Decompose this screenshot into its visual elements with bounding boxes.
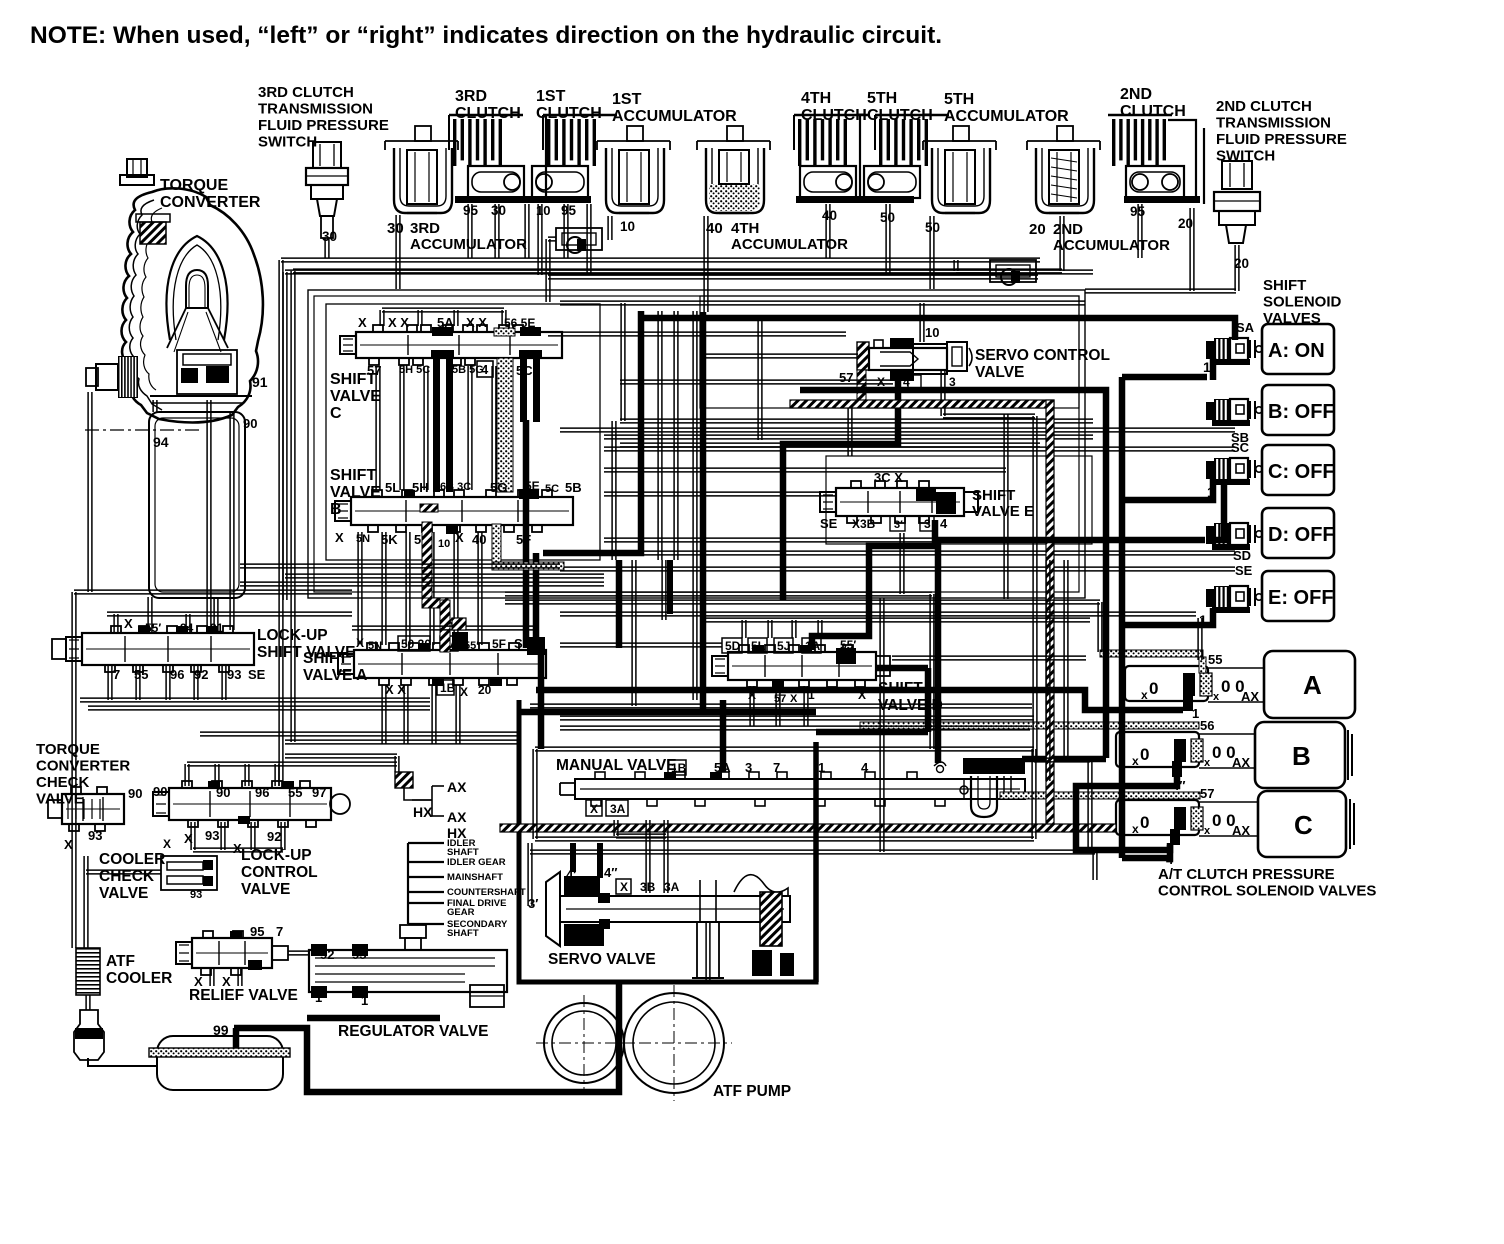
svg-text:X: X — [620, 880, 628, 894]
svg-text:TRANSMISSION: TRANSMISSION — [1216, 115, 1331, 132]
svg-text:7: 7 — [773, 760, 780, 775]
wire 50 5th clutch drop — [886, 204, 890, 275]
svg-text:ACCUMULATOR: ACCUMULATOR — [1053, 237, 1170, 254]
wire 30 3rd clutch drop — [495, 204, 499, 258]
svg-text:CLUTCH: CLUTCH — [1120, 103, 1186, 120]
svg-text:CLUTCH: CLUTCH — [455, 105, 521, 122]
wire valve D top stubs — [742, 620, 746, 638]
ATF pump — [544, 1003, 624, 1083]
svg-text:VALVE: VALVE — [241, 881, 290, 898]
manual valve right detent — [963, 758, 1025, 774]
svg-text:X: X — [335, 530, 344, 545]
wire B unit top 56 — [1198, 618, 1202, 660]
shift valve B — [351, 497, 573, 525]
svg-text:20: 20 — [1029, 221, 1046, 238]
svg-text:95: 95 — [250, 924, 264, 939]
svg-text:4″: 4″ — [604, 865, 617, 880]
wire rail y645 — [560, 643, 722, 647]
wire lockup shift valve bottom stubs — [108, 666, 112, 700]
enclosure box around shift valves B and C — [326, 304, 600, 560]
svg-text:55: 55 — [1208, 652, 1222, 667]
shift solenoid SC — [1206, 461, 1214, 479]
svg-text:B: B — [330, 501, 342, 518]
wire E box doubles — [1004, 414, 1008, 599]
svg-text:20: 20 — [478, 683, 492, 697]
wire valve A bottom stubs — [382, 685, 386, 744]
wire switch 30 drop — [325, 238, 329, 258]
svg-text:5C: 5C — [516, 363, 533, 378]
svg-text:57: 57 — [1200, 786, 1214, 801]
solenoid valve C box — [1258, 791, 1346, 857]
wire long vertical x882 — [880, 598, 884, 852]
wire double to SE — [560, 567, 1235, 571]
svg-text:ATF PUMP: ATF PUMP — [713, 1083, 791, 1100]
base plate 4th/5th clutch — [796, 196, 914, 203]
svg-text:SHIFT: SHIFT — [1263, 277, 1306, 294]
3rd clutch drawing — [453, 119, 456, 166]
ATF strainer — [74, 1010, 104, 1060]
wire thick mid bus join — [1022, 756, 1106, 763]
wire thick servo control to valves — [783, 381, 898, 600]
svg-text:5L: 5L — [751, 639, 765, 653]
svg-text:4TH: 4TH — [731, 220, 759, 237]
svg-text:X X: X X — [385, 682, 406, 697]
wire rail y658 — [892, 656, 1086, 660]
svg-text:4: 4 — [861, 760, 869, 775]
svg-text:4: 4 — [481, 362, 489, 377]
svg-text:10: 10 — [925, 325, 939, 340]
wire vertical x614 — [612, 421, 616, 560]
wire thick B C unit bottoms — [1076, 777, 1177, 850]
svg-text:3A: 3A — [610, 802, 626, 816]
svg-text:x: x — [1141, 688, 1148, 702]
svg-text:10: 10 — [620, 219, 635, 234]
lock-up control valve — [169, 788, 331, 820]
wire 2nd accumulator drop — [1060, 216, 1064, 271]
svg-text:57: 57 — [839, 370, 853, 385]
wire thick SA to manual valve — [538, 648, 545, 749]
wire verticals below valve D area — [632, 560, 636, 706]
svg-text:E: OFF: E: OFF — [1268, 587, 1334, 609]
pressure switch 20 (2nd clutch) — [1222, 161, 1252, 189]
wire manual frame right link — [1034, 758, 1090, 762]
relief valve — [192, 938, 272, 968]
hatched box 5X — [452, 618, 466, 630]
svg-text:5TH: 5TH — [867, 90, 897, 107]
svg-text:96: 96 — [255, 785, 269, 800]
5th clutch drawing — [879, 119, 882, 166]
wire rail y356 — [703, 354, 858, 358]
svg-text:x: x — [1132, 822, 1139, 836]
enclosure box R1 — [308, 290, 1085, 598]
1st accumulator drawing — [597, 141, 670, 150]
wire thick right bus — [1119, 377, 1126, 858]
svg-text:50: 50 — [880, 210, 895, 225]
svg-text:ATF: ATF — [106, 953, 135, 970]
svg-text:CONVERTER: CONVERTER — [36, 758, 130, 775]
wire cooler check link — [84, 856, 88, 948]
wire relief drop — [210, 968, 214, 986]
svg-text:5B: 5B — [565, 480, 582, 495]
svg-text:X: X — [358, 315, 367, 330]
svg-text:7: 7 — [276, 924, 283, 939]
wire AX feed — [395, 756, 399, 772]
svg-text:X: X — [460, 685, 468, 699]
wire thick manual to D solenoid — [938, 540, 1205, 763]
A/T pressure control unit A — [1125, 666, 1208, 701]
wire rail y382 — [620, 380, 893, 384]
svg-text:3B: 3B — [640, 880, 656, 894]
wire 20 2nd clutch drop — [1190, 208, 1194, 291]
svg-text:X: X — [163, 837, 171, 851]
svg-text:1B: 1B — [440, 681, 456, 695]
svg-text:MANUAL VALVE: MANUAL VALVE — [556, 757, 677, 774]
wire thick 4th acc column lower — [700, 312, 707, 712]
AX HX lubrication tree — [395, 772, 413, 788]
wire top rail 4 — [560, 301, 1085, 305]
wire rail y628 — [352, 626, 536, 630]
wire 1st accumulator check link — [608, 216, 612, 240]
wire lower-left rails — [74, 590, 352, 594]
svg-text:X: X — [590, 802, 598, 816]
svg-text:SE: SE — [1235, 563, 1253, 578]
5th accumulator drawing — [923, 141, 996, 150]
wire 40 4th clutch drop — [826, 204, 830, 258]
ATF cooler — [76, 948, 100, 995]
base plate 3rd/1st clutch — [455, 196, 591, 203]
svg-text:20: 20 — [1234, 256, 1249, 271]
wire rail y706 — [530, 704, 1032, 708]
svg-text:56 5E: 56 5E — [504, 316, 535, 330]
regulator valve — [309, 950, 507, 992]
enclosure box around servo control valve — [700, 296, 1079, 408]
wire thick pan 99 — [233, 1028, 240, 1048]
wire thick valve D port X link — [876, 665, 928, 672]
4th accumulator drawing — [697, 141, 770, 150]
servo valve — [546, 872, 560, 946]
shift valve E — [836, 488, 964, 516]
svg-text:VALVE E: VALVE E — [972, 503, 1034, 520]
wire vertical x1066 — [1064, 560, 1068, 760]
check valve near 1st accumulator — [556, 228, 602, 250]
wire rail y728 — [560, 726, 1030, 730]
shift solenoid SB — [1206, 402, 1214, 420]
svg-text:3′: 3′ — [528, 896, 538, 911]
svg-text:FLUID PRESSURE: FLUID PRESSURE — [258, 117, 389, 134]
svg-text:2ND: 2ND — [1120, 86, 1152, 103]
hatched column below valve B — [422, 522, 432, 606]
wire 95 1st clutch drop — [564, 204, 568, 258]
svg-text:A: A — [1303, 670, 1322, 700]
wire mid rails right half — [620, 419, 1093, 423]
svg-text:1B: 1B — [671, 761, 687, 775]
wire rail y734 — [200, 732, 519, 736]
solenoid valve A box — [1264, 651, 1355, 718]
wire clutch center drop — [525, 204, 529, 258]
svg-text:5H: 5H — [412, 480, 429, 495]
svg-text:C: OFF: C: OFF — [1268, 461, 1335, 483]
check valve near 2nd accumulator — [990, 260, 1036, 282]
wire lockup control top stubs — [185, 764, 189, 786]
svg-text:55: 55 — [288, 785, 302, 800]
wire 20 2nd switch drop — [1235, 245, 1239, 291]
outer enclosure box — [285, 270, 1093, 274]
wire hatched bus — [790, 400, 1054, 408]
svg-text:C: C — [1294, 810, 1313, 840]
svg-text:VALVE: VALVE — [330, 388, 381, 405]
svg-text:56: 56 — [1200, 718, 1214, 733]
svg-text:5D: 5D — [725, 639, 741, 653]
svg-text:0: 0 — [1140, 813, 1149, 832]
svg-text:X: X — [356, 636, 364, 650]
shift valve D — [728, 652, 876, 680]
wire 2nd accumulator check link — [956, 269, 990, 273]
svg-text:5K: 5K — [381, 532, 398, 547]
wire thick branch solenoid E pin — [1122, 608, 1213, 625]
shift solenoid SE — [1206, 589, 1214, 607]
svg-text:90: 90 — [216, 785, 230, 800]
svg-text:5J: 5J — [777, 639, 790, 653]
svg-text:VALVE: VALVE — [330, 484, 381, 501]
svg-text:SE: SE — [820, 516, 838, 531]
4th clutch drawing — [798, 119, 801, 166]
wire rail to A unit 55 — [505, 600, 1100, 604]
wire manual valve bottom stubs to servo — [646, 820, 650, 893]
svg-text:0: 0 — [1149, 679, 1158, 698]
wire servo box right edge — [813, 742, 819, 982]
svg-text:x: x — [1132, 754, 1139, 768]
wire mid vertical x760 — [758, 320, 762, 440]
svg-text:4TH: 4TH — [801, 90, 831, 107]
svg-text:CONTROL SOLENOID VALVES: CONTROL SOLENOID VALVES — [1158, 883, 1376, 900]
svg-text:SERVO VALVE: SERVO VALVE — [548, 951, 656, 968]
svg-text:92: 92 — [320, 947, 334, 962]
manual valve port labels — [668, 760, 686, 775]
wire double to SD — [604, 551, 1235, 555]
shift valve C — [356, 332, 562, 358]
wire left bus vertical — [230, 412, 234, 630]
wire double to SB — [560, 428, 1235, 432]
svg-text:50: 50 — [925, 220, 940, 235]
wire 5th accumulator drop — [930, 216, 934, 289]
pressure switch 30 (3rd clutch) — [313, 142, 341, 168]
wire thick valve E drop chain — [812, 520, 935, 650]
wire rail y470 — [604, 468, 1006, 472]
torque converter — [122, 188, 263, 422]
svg-text:92: 92 — [194, 667, 208, 682]
svg-text:5A: 5A — [437, 315, 454, 330]
wire thick branch solenoid C pin — [1122, 479, 1213, 500]
svg-text:X X: X X — [388, 315, 409, 330]
wire thick 1B column — [616, 560, 623, 648]
wire double x1048 to B unit — [1046, 560, 1050, 781]
svg-text:1: 1 — [315, 990, 322, 1005]
svg-text:SE: SE — [248, 667, 266, 682]
wire lockup shift valve top stubs — [114, 614, 118, 632]
A/T pressure control unit C — [1116, 800, 1199, 835]
svg-text:ACCUMULATOR: ACCUMULATOR — [612, 108, 737, 125]
svg-text:40: 40 — [472, 532, 486, 547]
wire rail y334 — [548, 332, 846, 336]
stippled column 40 below valve B — [492, 524, 501, 568]
wire mid verticals x660 x676 — [658, 311, 662, 560]
svg-text:1ST: 1ST — [536, 88, 566, 105]
shift valve D port labels — [722, 638, 742, 653]
svg-text:55′: 55′ — [464, 640, 479, 652]
wire 1st clutch right drop — [587, 204, 591, 275]
enclosure box around shift valve E — [826, 456, 1092, 544]
svg-text:CONVERTER: CONVERTER — [160, 194, 261, 211]
svg-text:90: 90 — [128, 786, 142, 801]
servo control valve — [857, 342, 869, 370]
servo valve box — [519, 700, 816, 982]
svg-text:1ST: 1ST — [612, 91, 642, 108]
svg-text:REGULATOR VALVE: REGULATOR VALVE — [338, 1023, 488, 1040]
svg-text:4: 4 — [940, 516, 948, 531]
wire servo control valve 10 feed — [920, 303, 924, 342]
svg-text:SHIFT: SHIFT — [303, 650, 348, 667]
wire thick C4 joining bus — [1122, 845, 1170, 858]
1st clutch drawing — [547, 119, 550, 166]
svg-text:5F: 5F — [492, 637, 506, 651]
svg-text:30: 30 — [387, 220, 404, 237]
svg-text:B: OFF: B: OFF — [1268, 401, 1335, 423]
valve C black columns down — [433, 358, 440, 492]
svg-text:RELIEF VALVE: RELIEF VALVE — [189, 987, 298, 1004]
svg-text:SA: SA — [1236, 320, 1255, 335]
svg-text:95: 95 — [561, 203, 577, 218]
svg-text:5C: 5C — [545, 483, 559, 495]
wire lockup control bottoms — [191, 822, 195, 850]
lock-up shift valve — [82, 633, 254, 665]
svg-text:3RD CLUTCH: 3RD CLUTCH — [258, 84, 354, 101]
svg-text:6B 3C: 6B 3C — [440, 481, 471, 493]
svg-text:C: C — [330, 405, 342, 422]
svg-text:1: 1 — [361, 993, 368, 1008]
svg-text:1: 1 — [818, 760, 825, 775]
wire thick above manual valve — [519, 709, 816, 716]
wire top rail 2b — [293, 269, 1036, 273]
svg-text:7: 7 — [113, 667, 120, 682]
svg-text:COUNTERSHAFT: COUNTERSHAFT — [447, 887, 526, 898]
wire top rail 2 — [548, 275, 1038, 279]
wire bottom double rail — [530, 850, 1095, 854]
wire thick x670 lower — [667, 560, 673, 614]
wire manual valve frame — [535, 747, 1034, 751]
2nd accumulator drawing — [1027, 141, 1100, 150]
wire SCV 57 drop — [848, 408, 852, 456]
oil pan — [157, 1036, 283, 1090]
svg-text:3: 3 — [745, 760, 752, 775]
wire vertical x623 — [621, 303, 625, 421]
svg-text:CONTROL: CONTROL — [241, 864, 318, 881]
wire thick regulator base — [307, 1015, 440, 1022]
svg-text:GEAR: GEAR — [447, 907, 475, 918]
svg-text:SD: SD — [1233, 548, 1251, 563]
svg-text:3′: 3′ — [894, 519, 903, 531]
svg-text:X X: X X — [466, 315, 487, 330]
wire mid vertical x695 — [693, 311, 697, 700]
svg-text:NOTE: When used, “left” or “ri: NOTE: When used, “left” or “right” indic… — [30, 22, 942, 49]
svg-text:55′: 55′ — [840, 638, 856, 652]
wire TC left fitting drop — [88, 392, 92, 592]
wire E valve port drop — [900, 533, 904, 594]
svg-text:95: 95 — [352, 947, 366, 962]
wire rail y494 — [604, 492, 836, 496]
wire rail y595 to manual frame — [505, 592, 932, 596]
svg-text:MAINSHAFT: MAINSHAFT — [447, 872, 503, 883]
stippled feed 56 — [860, 722, 1199, 729]
svg-text:93: 93 — [88, 828, 102, 843]
solenoid valve B box — [1255, 722, 1345, 788]
svg-text:5TH: 5TH — [944, 91, 974, 108]
svg-text:10: 10 — [438, 538, 450, 550]
wire 95 3rd clutch drop — [468, 204, 472, 258]
wire valve B bottom to lower mesh — [358, 532, 362, 645]
svg-text:VALVE: VALVE — [99, 885, 148, 902]
svg-text:COOLER: COOLER — [99, 851, 165, 868]
svg-text:5N: 5N — [368, 640, 382, 652]
svg-text:TRANSMISSION: TRANSMISSION — [258, 101, 373, 118]
svg-text:VALVE A: VALVE A — [303, 667, 367, 684]
shift solenoid SD — [1206, 526, 1214, 544]
svg-text:D: OFF: D: OFF — [1268, 524, 1335, 546]
2nd clutch drawing — [1112, 119, 1115, 166]
svg-text:A/T CLUTCH PRESSURE: A/T CLUTCH PRESSURE — [1158, 866, 1335, 883]
svg-text:ACCUMULATOR: ACCUMULATOR — [944, 108, 1069, 125]
svg-text:2ND: 2ND — [1053, 221, 1083, 238]
stippled feed 55 — [1100, 650, 1203, 657]
svg-text:92: 92 — [267, 829, 281, 844]
svg-text:91: 91 — [210, 621, 224, 635]
wire 10 1st clutch drop — [538, 204, 542, 275]
wire thick servo 4-prime feeds — [570, 843, 576, 872]
wire top rail 3 — [1085, 289, 1236, 293]
svg-text:FLUID PRESSURE: FLUID PRESSURE — [1216, 131, 1347, 148]
svg-text:X: X — [790, 693, 798, 705]
wire strainer link — [86, 995, 90, 1010]
svg-text:3RD: 3RD — [455, 88, 487, 105]
svg-text:SHAFT: SHAFT — [447, 928, 479, 939]
wire 95 2nd clutch drop — [1138, 204, 1142, 258]
svg-text:HX: HX — [413, 804, 433, 820]
wire thick manual valve feed 1 — [720, 700, 727, 772]
svg-text:X: X — [124, 616, 133, 631]
svg-text:SHIFT: SHIFT — [330, 467, 376, 484]
wire thick column mid — [543, 311, 641, 553]
svg-text:5L: 5L — [385, 480, 400, 495]
wire double to SC — [604, 447, 1235, 451]
wire top rail 1 — [281, 258, 1040, 262]
svg-text:0: 0 — [1140, 745, 1149, 764]
svg-text:93: 93 — [205, 828, 219, 843]
wire valve C to valve B doubles — [376, 366, 380, 490]
svg-text:LOCK-UP: LOCK-UP — [257, 627, 328, 644]
wire thick feed to solenoid SA — [644, 318, 1235, 340]
svg-text:94: 94 — [153, 434, 169, 450]
shift valve A — [354, 650, 546, 678]
svg-text:A: ON: A: ON — [1268, 340, 1325, 362]
svg-text:97: 97 — [312, 785, 326, 800]
svg-text:91: 91 — [252, 374, 268, 390]
svg-text:2ND CLUTCH: 2ND CLUTCH — [1216, 98, 1312, 115]
svg-text:99: 99 — [213, 1022, 229, 1038]
wire valve C top stubs — [380, 310, 384, 326]
wire valve D bottom stubs — [750, 686, 754, 726]
svg-text:3RD: 3RD — [410, 220, 440, 237]
wire rail y540 — [604, 538, 1046, 542]
svg-text:93: 93 — [227, 667, 241, 682]
